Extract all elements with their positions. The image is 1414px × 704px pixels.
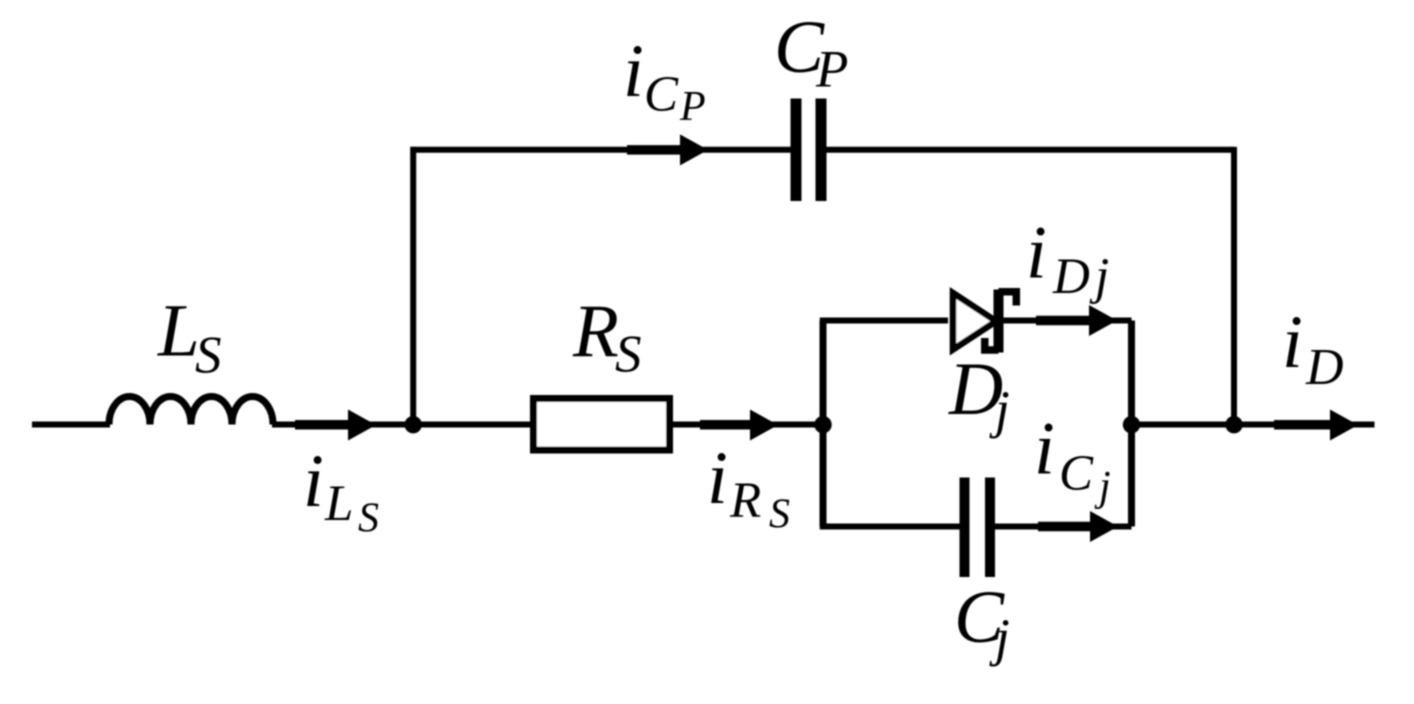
diode Dj (Schottky): [953, 290, 1016, 353]
svg-text:i: i: [1034, 408, 1055, 491]
svg-text:P: P: [815, 41, 848, 99]
label iLS: [303, 440, 379, 542]
wire node C to node D: [1132, 422, 1235, 428]
wire output lead: [1234, 422, 1375, 428]
svg-text:i: i: [623, 30, 644, 113]
label CP: [774, 6, 848, 99]
label iCP: [623, 30, 706, 130]
wire right side of CP branch down: [1231, 147, 1237, 425]
wire inductor to node A: [272, 422, 414, 428]
svg-text:C: C: [1059, 446, 1094, 502]
wire top branch left of diode: [820, 318, 948, 324]
wire parallel loop right vertical: [1128, 321, 1135, 527]
wire top branch right of diode: [1003, 318, 1132, 324]
wire node A to resistor: [413, 422, 531, 428]
svg-text:i: i: [707, 437, 728, 520]
label Cj: [954, 576, 1010, 667]
label iD: [1282, 301, 1344, 396]
label iCj: [1034, 408, 1111, 511]
resistor RS: [534, 399, 670, 451]
wire bottom branch left of Cj: [820, 524, 960, 530]
wire top rail left of CP: [410, 147, 791, 153]
svg-text:i: i: [1026, 212, 1047, 295]
svg-text:C: C: [644, 67, 679, 123]
svg-text:R: R: [729, 473, 761, 529]
label RS: [572, 290, 642, 384]
current arrow iDj: [1036, 305, 1117, 336]
svg-text:L: L: [157, 290, 200, 373]
svg-text:S: S: [358, 496, 379, 542]
wire left input lead: [32, 422, 110, 428]
svg-text:i: i: [303, 440, 324, 523]
wire bottom branch right of Cj: [995, 524, 1132, 530]
node C junction dot: [1123, 416, 1140, 433]
label iDj: [1026, 212, 1109, 306]
svg-text:L: L: [324, 476, 353, 532]
wire resistor to node B: [670, 422, 823, 428]
wire node A up: [410, 147, 416, 427]
svg-text:S: S: [195, 327, 222, 385]
node D junction dot: [1225, 416, 1242, 433]
label iRS: [707, 437, 790, 538]
svg-text:i: i: [1282, 301, 1303, 384]
current arrow iCj: [1038, 511, 1118, 542]
svg-text:P: P: [679, 84, 706, 130]
current arrow iLS: [295, 410, 376, 441]
svg-text:S: S: [769, 492, 790, 538]
capacitor Cj: [965, 478, 991, 578]
capacitor CP: [796, 99, 821, 202]
svg-text:D: D: [1305, 339, 1344, 396]
wire parallel loop left vertical: [820, 321, 827, 527]
node B junction dot: [814, 416, 831, 433]
inductor LS: [109, 397, 273, 425]
wire top rail right of CP: [827, 147, 1235, 153]
node A junction dot: [405, 416, 422, 433]
current arrow iRS: [700, 410, 778, 441]
current arrow iD: [1274, 410, 1358, 441]
svg-text:R: R: [572, 290, 619, 373]
svg-text:S: S: [615, 326, 642, 384]
svg-text:D: D: [1052, 249, 1090, 305]
current arrow iCP: [627, 134, 708, 165]
label Dj: [948, 348, 1010, 439]
